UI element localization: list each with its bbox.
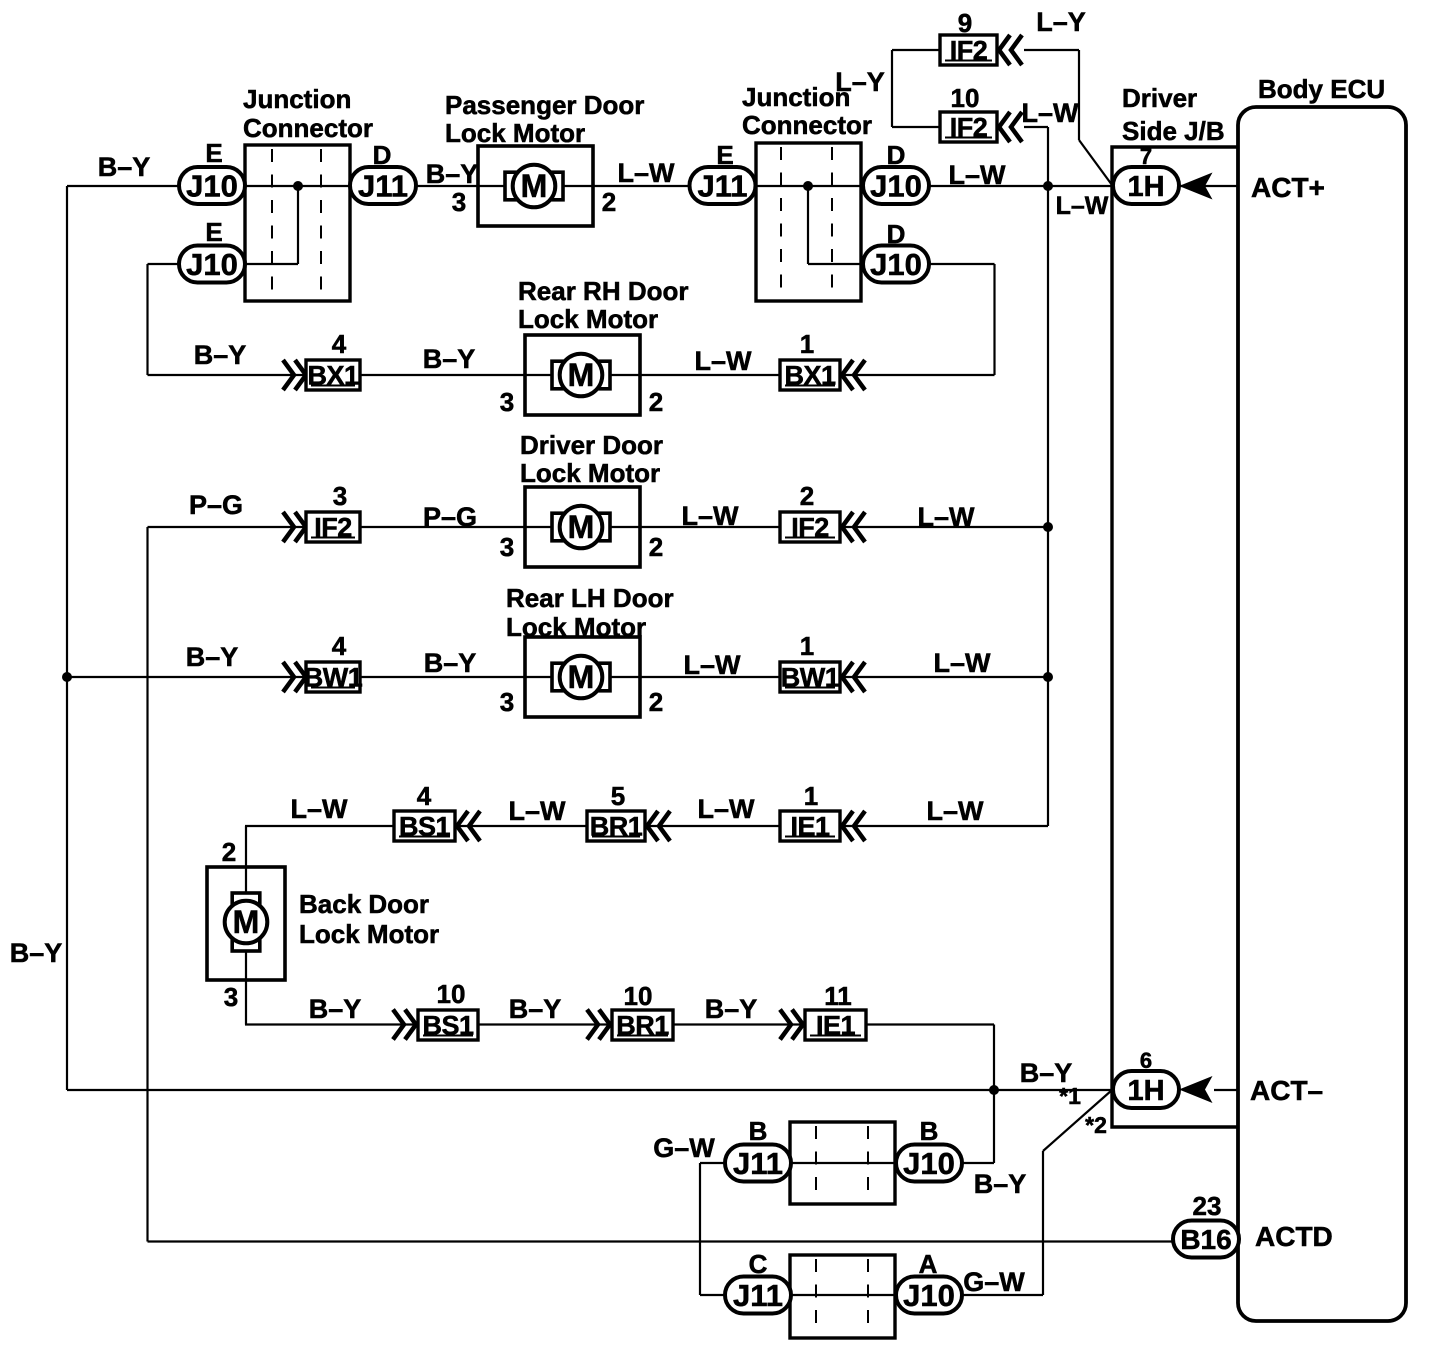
svg-text:G–W: G–W (653, 1133, 715, 1163)
svg-text:L–W: L–W (695, 346, 753, 376)
svg-text:J10: J10 (870, 247, 922, 282)
svg-text:1: 1 (800, 329, 814, 359)
svg-text:Lock Motor: Lock Motor (520, 458, 660, 488)
svg-text:C: C (749, 1249, 768, 1279)
svg-text:B–Y: B–Y (98, 152, 151, 182)
svg-text:M: M (233, 904, 260, 940)
svg-text:L–W: L–W (934, 648, 992, 678)
svg-text:1: 1 (800, 631, 814, 661)
svg-text:D: D (373, 140, 392, 170)
svg-text:Lock Motor: Lock Motor (445, 118, 585, 148)
svg-text:M: M (521, 168, 548, 204)
svg-text:L–W: L–W (698, 794, 756, 824)
svg-text:10: 10 (437, 979, 466, 1009)
svg-text:Lock Motor: Lock Motor (299, 919, 439, 949)
svg-text:Lock Motor: Lock Motor (518, 304, 658, 334)
svg-text:4: 4 (417, 781, 432, 811)
svg-text:*1: *1 (1059, 1083, 1081, 1109)
svg-text:E: E (205, 138, 222, 168)
svg-text:Rear RH Door: Rear RH Door (518, 276, 688, 306)
svg-text:E: E (716, 140, 733, 170)
svg-text:3: 3 (500, 387, 514, 417)
svg-text:Driver: Driver (1122, 83, 1197, 113)
svg-text:J10: J10 (186, 247, 238, 282)
svg-text:Back Door: Back Door (299, 889, 429, 919)
svg-text:L–W: L–W (509, 796, 567, 826)
svg-text:B–Y: B–Y (509, 994, 562, 1024)
svg-text:10: 10 (624, 981, 653, 1011)
svg-text:2: 2 (649, 532, 663, 562)
svg-text:B–Y: B–Y (423, 344, 476, 374)
svg-text:M: M (568, 659, 595, 695)
svg-text:Junction: Junction (742, 82, 850, 112)
svg-text:2: 2 (649, 687, 663, 717)
svg-text:ACT–: ACT– (1250, 1075, 1323, 1106)
svg-text:B16: B16 (1180, 1224, 1231, 1255)
svg-text:L–Y: L–Y (835, 67, 885, 97)
svg-text:4: 4 (332, 631, 347, 661)
svg-text:B–Y: B–Y (309, 994, 362, 1024)
svg-text:A: A (919, 1249, 938, 1279)
svg-text:3: 3 (500, 532, 514, 562)
svg-text:Junction: Junction (243, 84, 351, 114)
svg-text:1: 1 (804, 781, 818, 811)
svg-text:1H: 1H (1127, 1075, 1164, 1107)
svg-text:Connector: Connector (742, 110, 872, 140)
svg-text:3: 3 (224, 982, 238, 1012)
svg-text:B: B (749, 1116, 768, 1146)
svg-text:L–W: L–W (684, 650, 742, 680)
svg-text:P–G: P–G (189, 490, 243, 520)
svg-text:23: 23 (1193, 1191, 1222, 1221)
svg-text:Passenger Door: Passenger Door (445, 90, 644, 120)
svg-text:ACTD: ACTD (1255, 1221, 1333, 1252)
svg-text:L–W: L–W (291, 794, 349, 824)
svg-text:3: 3 (333, 481, 347, 511)
svg-text:L–W: L–W (949, 160, 1007, 190)
svg-text:G–W: G–W (963, 1267, 1025, 1297)
svg-text:L–W: L–W (927, 796, 985, 826)
svg-text:M: M (568, 357, 595, 393)
svg-text:9: 9 (958, 8, 972, 38)
svg-text:3: 3 (452, 187, 466, 217)
svg-text:J11: J11 (733, 1278, 783, 1313)
svg-text:B–Y: B–Y (186, 642, 239, 672)
svg-text:L–Y: L–Y (1036, 7, 1086, 37)
svg-text:J11: J11 (697, 169, 747, 204)
svg-text:B–Y: B–Y (705, 994, 758, 1024)
svg-text:Driver Door: Driver Door (520, 430, 663, 460)
svg-text:ACT+: ACT+ (1251, 172, 1325, 203)
svg-text:L–W: L–W (682, 501, 740, 531)
svg-text:10: 10 (951, 83, 980, 113)
svg-text:6: 6 (1140, 1048, 1152, 1073)
svg-text:Rear LH Door: Rear LH Door (506, 583, 674, 613)
svg-text:3: 3 (500, 687, 514, 717)
svg-text:7: 7 (1140, 144, 1152, 169)
svg-text:J10: J10 (870, 169, 922, 204)
svg-text:B–Y: B–Y (10, 938, 63, 968)
svg-text:L–W: L–W (918, 502, 976, 532)
svg-text:11: 11 (824, 981, 852, 1011)
svg-text:L–W: L–W (618, 158, 676, 188)
svg-text:Connector: Connector (243, 113, 373, 143)
svg-text:2: 2 (222, 837, 236, 867)
svg-text:4: 4 (332, 329, 347, 359)
svg-text:5: 5 (611, 781, 625, 811)
svg-text:B: B (920, 1116, 939, 1146)
svg-text:P–G: P–G (423, 502, 477, 532)
svg-text:D: D (887, 219, 906, 249)
svg-text:J11: J11 (358, 169, 408, 204)
svg-text:B–Y: B–Y (426, 159, 479, 189)
svg-text:Side J/B: Side J/B (1122, 116, 1225, 146)
svg-text:B–Y: B–Y (424, 648, 477, 678)
svg-text:B–Y: B–Y (974, 1169, 1027, 1199)
svg-text:1H: 1H (1127, 171, 1164, 203)
svg-text:B–Y: B–Y (194, 340, 247, 370)
svg-text:J10: J10 (903, 1146, 955, 1181)
svg-text:*2: *2 (1085, 1112, 1107, 1138)
svg-text:L–W: L–W (1022, 98, 1080, 128)
svg-text:J10: J10 (903, 1278, 955, 1313)
svg-text:E: E (205, 217, 222, 247)
svg-text:L–W: L–W (1056, 192, 1109, 220)
svg-text:2: 2 (649, 387, 663, 417)
svg-text:D: D (887, 140, 906, 170)
svg-text:J10: J10 (186, 169, 238, 204)
svg-text:Body ECU: Body ECU (1258, 74, 1385, 104)
svg-text:2: 2 (800, 481, 814, 511)
svg-text:M: M (568, 509, 595, 545)
svg-text:2: 2 (602, 187, 616, 217)
svg-text:J11: J11 (733, 1146, 783, 1181)
svg-text:Lock Motor: Lock Motor (506, 612, 646, 642)
